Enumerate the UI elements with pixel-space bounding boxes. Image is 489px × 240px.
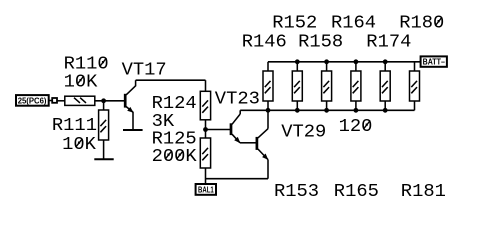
node B (junction dot) bbox=[203, 127, 208, 132]
bottom rail (collector bus) bbox=[240, 109, 414, 111]
slash of zero in R180 bbox=[435, 17, 442, 26]
slash of second zero in 200K bbox=[177, 151, 184, 160]
slash of zero in 10K bbox=[77, 76, 84, 85]
top rail (to BATT-) bbox=[268, 61, 421, 63]
svg-text:10K: 10K bbox=[62, 133, 97, 155]
wire: R125 to BAL1 bbox=[205, 168, 207, 184]
wire: VT29 emitter down bbox=[267, 160, 269, 179]
wire: node A down to R111 bbox=[103, 101, 105, 110]
slash of zero in 10K bbox=[76, 139, 83, 148]
junction dot top/R164 bbox=[354, 59, 359, 64]
wire: R111 to ground bar bbox=[103, 140, 105, 159]
junction dot rail/R164 bbox=[354, 108, 359, 113]
slash of zero in 200K bbox=[165, 151, 172, 160]
wire: VT23 collector to bottom rail bbox=[239, 110, 241, 114]
resistor R180 (bank 6) bbox=[410, 62, 420, 111]
svg-text:120: 120 bbox=[339, 115, 373, 137]
wire: pin to R110 bbox=[57, 100, 65, 102]
wire: VT17 collector up bbox=[135, 80, 137, 86]
resistor R110 bbox=[65, 96, 95, 105]
node C (junction dot rail/VT29) bbox=[266, 108, 271, 113]
transistor VT29 bbox=[257, 129, 268, 160]
terminal BATT- bbox=[421, 56, 447, 66]
svg-text:R153: R153 bbox=[274, 180, 319, 202]
junction dot top/R152 bbox=[295, 59, 300, 64]
svg-text:VT29: VT29 bbox=[281, 120, 326, 142]
svg-text:BATT–: BATT– bbox=[423, 57, 445, 67]
transistor VT17 bbox=[125, 86, 135, 113]
svg-text:200K: 200K bbox=[152, 145, 198, 167]
wire: R110 to node A bbox=[95, 100, 124, 102]
resistor R164 (bank 4) bbox=[351, 62, 361, 111]
svg-text:R165: R165 bbox=[334, 180, 379, 202]
terminal 25(PC6) bbox=[16, 95, 49, 106]
resistor R111 bbox=[99, 110, 109, 140]
junction dot rail/R158 bbox=[324, 108, 329, 113]
junction dot rail/R152 bbox=[295, 108, 300, 113]
svg-text:R146: R146 bbox=[242, 30, 287, 52]
node A (junction dot) bbox=[101, 98, 106, 103]
resistor R174 (bank 5) bbox=[380, 62, 390, 111]
wire: 25(PC6) box to pin bbox=[49, 100, 53, 102]
ground bar (VT17 emitter) bbox=[123, 129, 143, 131]
junction dot rail/R174 bbox=[383, 108, 388, 113]
ground bar (R111 return) bbox=[94, 158, 113, 160]
pin square (connector pin) bbox=[52, 98, 57, 103]
slash of zero in R110 bbox=[100, 58, 107, 67]
resistor R125 bbox=[200, 138, 210, 168]
wire: VT29 collector up to node C bbox=[267, 110, 269, 128]
resistor R146 (bank 1) bbox=[263, 62, 273, 111]
svg-text:R158: R158 bbox=[298, 30, 343, 52]
terminal BAL1 bbox=[196, 184, 216, 195]
wire: VT17 emitter down bbox=[132, 112, 134, 130]
svg-text:R174: R174 bbox=[366, 30, 411, 52]
junction dot top/R158 bbox=[324, 59, 329, 64]
slash of zero in 120 bbox=[364, 121, 371, 130]
resistor R124 bbox=[200, 91, 210, 120]
wire: VT17 collector rail to R124 bbox=[136, 79, 206, 81]
svg-text:10K: 10K bbox=[64, 70, 99, 92]
svg-text:BAL1: BAL1 bbox=[198, 185, 214, 195]
svg-text:25(PC6): 25(PC6) bbox=[18, 96, 47, 106]
resistor R158 (bank 3) bbox=[322, 62, 332, 111]
wire: R124 to R125 through node B bbox=[205, 120, 207, 138]
svg-text:VT23: VT23 bbox=[215, 88, 260, 110]
transistor VT23 bbox=[231, 114, 240, 143]
resistor R152 (bank 2) bbox=[292, 62, 302, 111]
wire: node B to VT23 base bbox=[206, 129, 231, 131]
wire: VT23 emitter to VT29 base bbox=[240, 142, 256, 144]
junction dot top/R174 bbox=[383, 59, 388, 64]
svg-text:R181: R181 bbox=[401, 180, 446, 202]
svg-text:VT17: VT17 bbox=[122, 59, 167, 81]
wire: down into R124 bbox=[205, 80, 207, 91]
wire: emitter return to BAL1 node bbox=[206, 178, 269, 180]
